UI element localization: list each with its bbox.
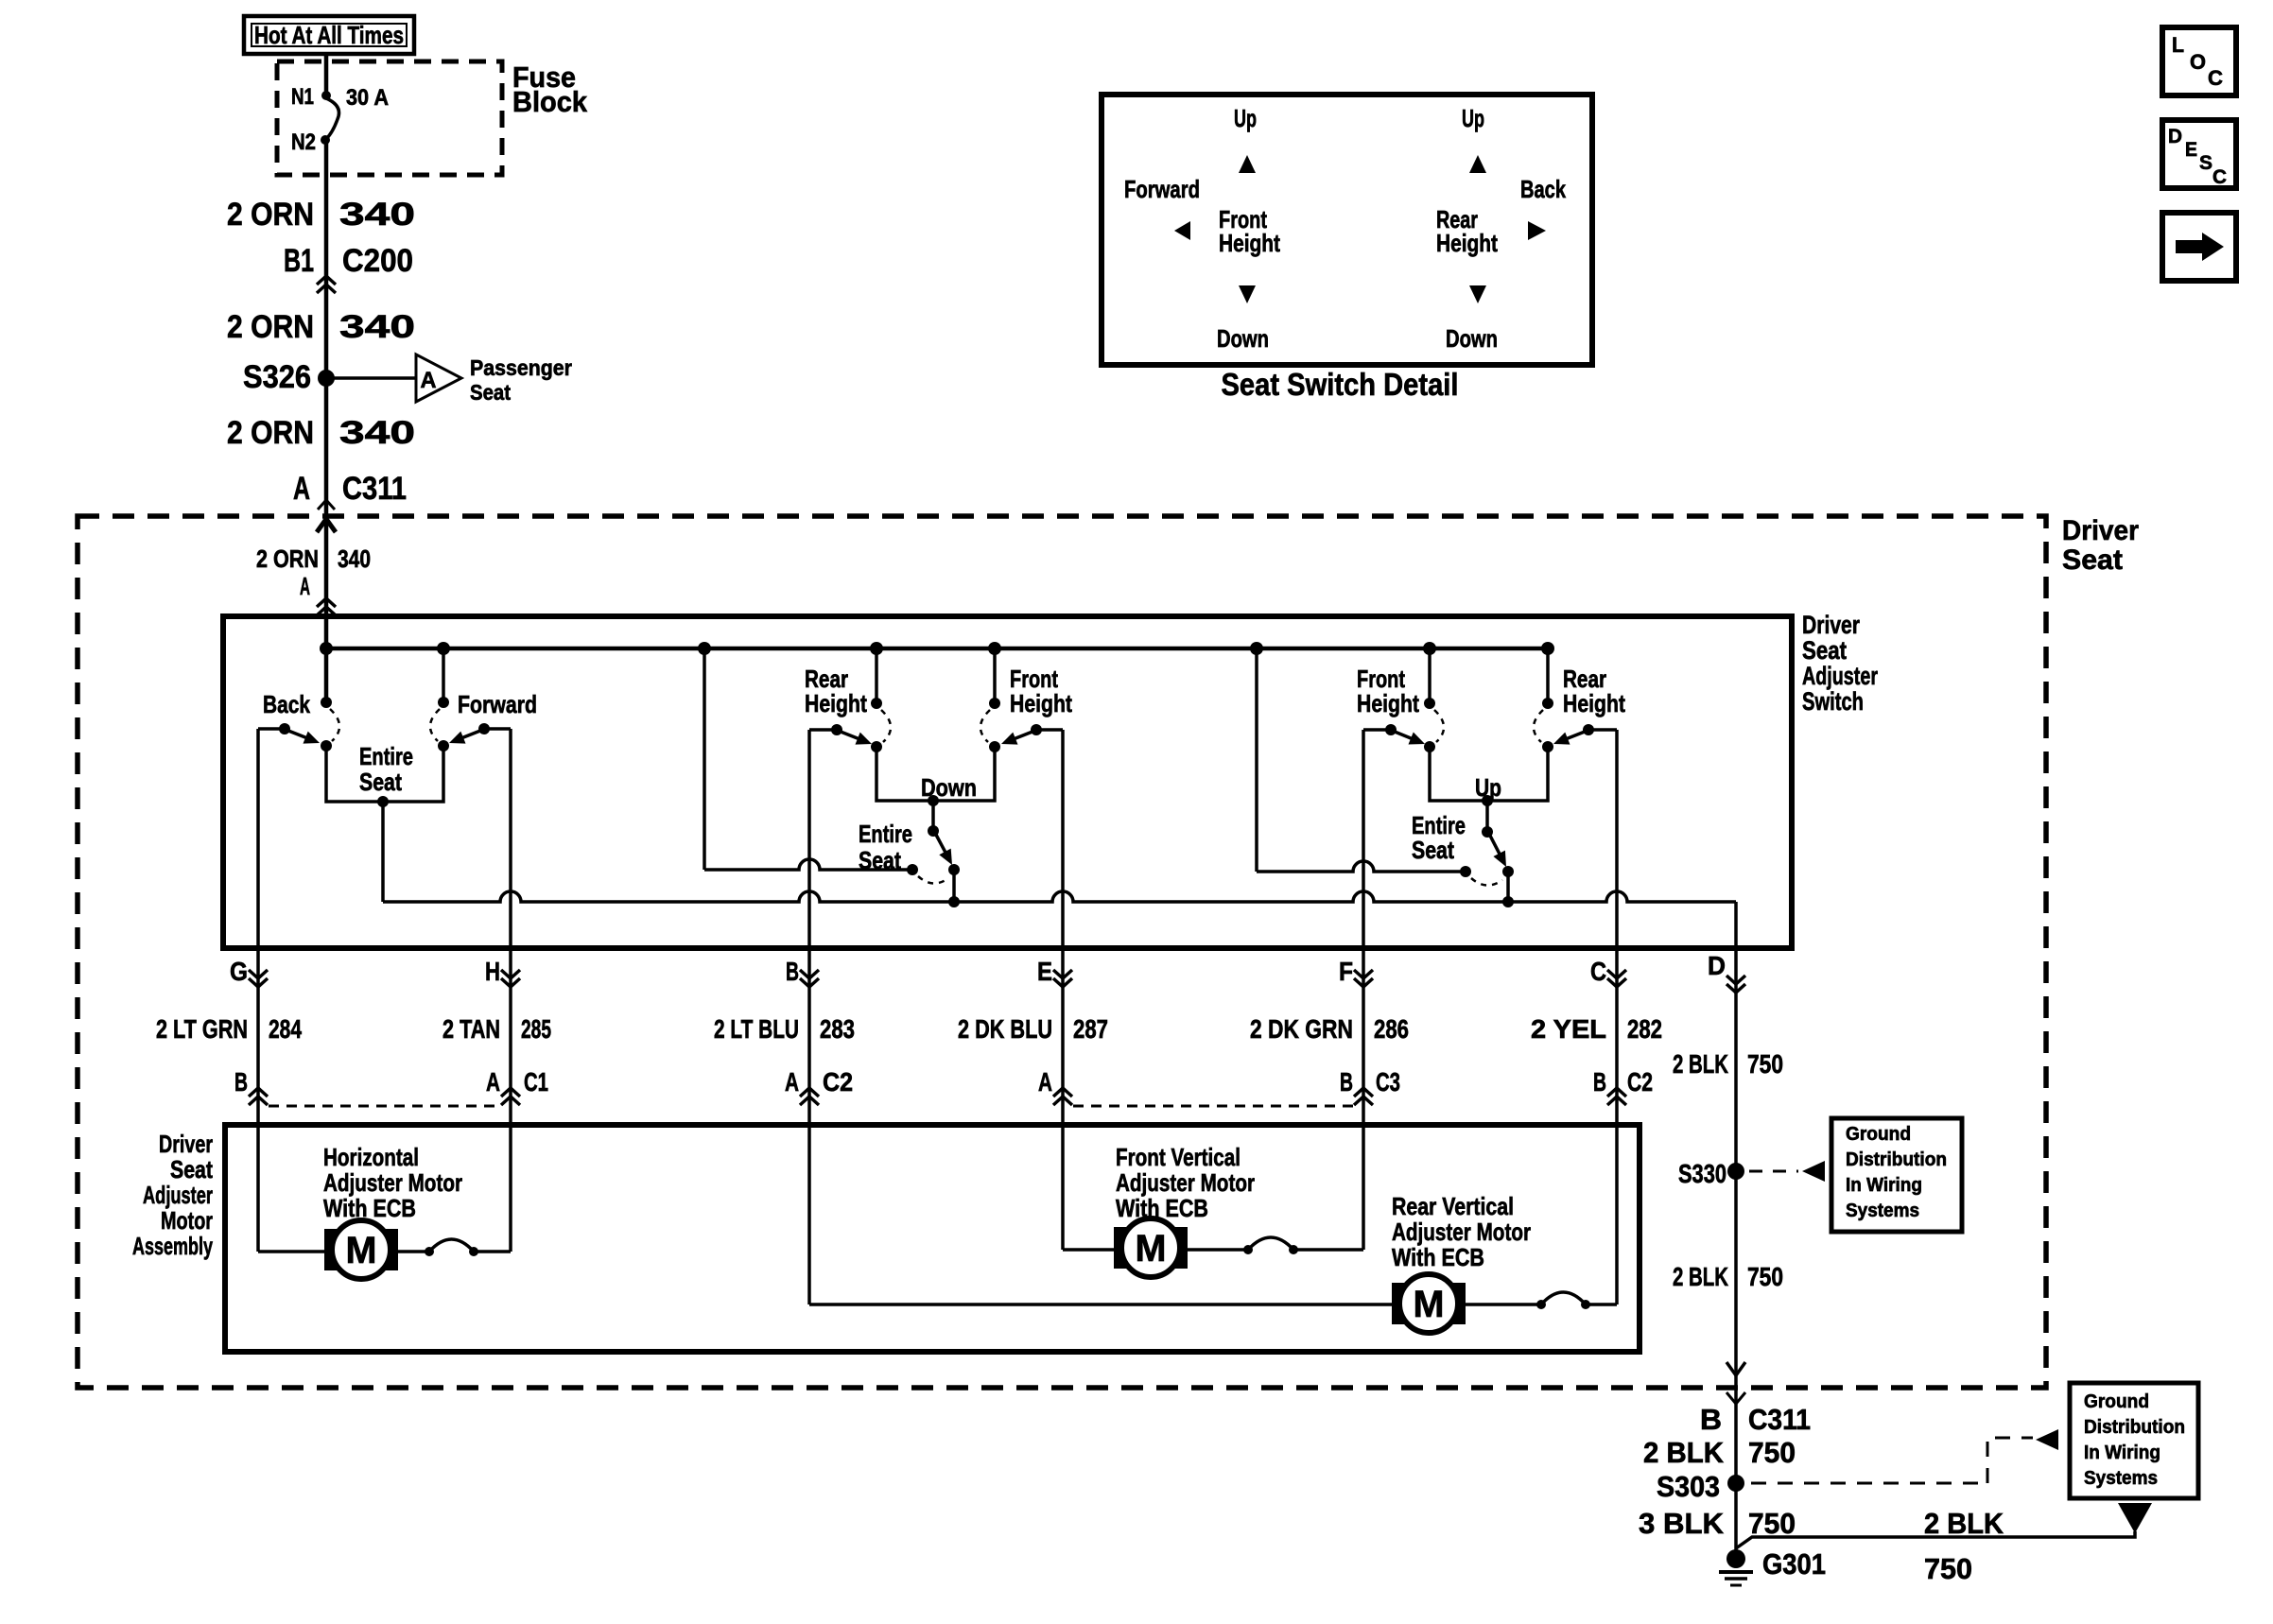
switch arm Forward (461, 731, 480, 738)
svg-text:Seat: Seat (1802, 636, 1847, 665)
wire: S330 down to C311 (1734, 1171, 1738, 1388)
svg-text:B: B (1593, 1067, 1606, 1097)
wire: branch to ground distribution (2 BLK 750) (1736, 1531, 2135, 1548)
dashed reference S330 to ground distribution (1749, 1170, 1798, 1173)
connector symbol G (switch side) (249, 970, 268, 978)
svg-text:Seat: Seat (470, 380, 511, 405)
svg-text:M: M (1414, 1284, 1445, 1325)
svg-text:750: 750 (1748, 1436, 1796, 1469)
wire: M3 to breaker (1462, 1303, 1541, 1306)
svg-text:Seat Switch Detail: Seat Switch Detail (1222, 367, 1459, 402)
fuse 30A element (321, 91, 331, 100)
dashed reference S303 to ground distribution (1751, 1438, 2033, 1483)
connector symbol E (switch side) (1053, 970, 1072, 978)
svg-text:282: 282 (1627, 1014, 1662, 1044)
seat switch detail: front down arrow (1239, 285, 1256, 303)
connector C3 symbol (right half) (1354, 1088, 1373, 1097)
svg-text:B: B (786, 957, 799, 986)
dashed arc Back (330, 709, 339, 741)
entire seat junction (sec1) (377, 796, 389, 807)
entire seat arm pivot (sec3) (1482, 826, 1493, 838)
dashed arc entire seat (sec3) (1471, 878, 1502, 886)
driver seat dashed box (78, 516, 2046, 1388)
svg-text:Hot At All Times: Hot At All Times (254, 21, 404, 49)
svg-text:750: 750 (1748, 1507, 1796, 1540)
svg-text:Adjuster Motor: Adjuster Motor (1116, 1168, 1255, 1197)
wire: sec1 junction down to lower bus (381, 802, 385, 902)
svg-text:3 BLK: 3 BLK (1639, 1507, 1725, 1540)
wire: Hot At All Times to fuse N1 (324, 54, 329, 95)
svg-text:C: C (1590, 957, 1606, 986)
connector C3 symbol (left half) (1053, 1088, 1072, 1097)
dashed arc Rear Height sec3 (1534, 710, 1543, 742)
svg-text:Block: Block (512, 85, 588, 118)
svg-text:287: 287 (1073, 1014, 1108, 1044)
switch arm Rear Height sec3 (1566, 732, 1585, 739)
switch pole (Forward side) (478, 723, 490, 734)
connector symbol B (switch side) (800, 970, 819, 978)
svg-text:340: 340 (339, 415, 415, 451)
svg-text:Adjuster Motor: Adjuster Motor (323, 1168, 462, 1197)
seat switch detail: rear down arrow (1469, 285, 1486, 303)
wire: output C down (1615, 948, 1619, 1125)
connector C1 symbol (right half) (501, 1088, 520, 1097)
svg-text:N2: N2 (291, 130, 316, 155)
wire: bus down to sec3 pole feed (1255, 648, 1258, 872)
svg-text:Ground: Ground (2084, 1391, 2149, 1412)
svg-text:30 A: 30 A (346, 85, 389, 111)
common contact left (sec2) (871, 741, 882, 752)
ground distribution box (upper) (1831, 1118, 1962, 1232)
svg-text:Height: Height (1563, 689, 1625, 717)
svg-text:Forward: Forward (1124, 175, 1200, 203)
up U wire (sec3) (1430, 747, 1548, 801)
DESC icon box (2162, 120, 2236, 188)
switch arm Rear Height (841, 732, 859, 739)
svg-text:E: E (1037, 957, 1052, 986)
svg-text:S326: S326 (243, 359, 311, 395)
switch pole (Front Height sec3) (1385, 724, 1397, 735)
svg-text:Down: Down (1446, 324, 1498, 353)
ground distribution box (lower) (2070, 1383, 2198, 1498)
entire seat contact (sec3) (1460, 866, 1471, 877)
svg-text:Height: Height (1010, 689, 1072, 717)
switch pole (Rear Height) (831, 724, 842, 735)
wire: breaker to C3 wire (1293, 1248, 1363, 1252)
svg-text:Driver: Driver (2062, 515, 2139, 546)
svg-text:Rear Vertical: Rear Vertical (1392, 1192, 1514, 1220)
svg-text:286: 286 (1374, 1014, 1409, 1044)
svg-text:Adjuster Motor: Adjuster Motor (1392, 1218, 1531, 1246)
common contact left (sec1) (321, 740, 332, 752)
switch ground bus with hops (383, 891, 1736, 902)
wire: S326 down to C311 (324, 378, 329, 516)
connector C311 symbol (318, 500, 335, 510)
svg-text:G301: G301 (1762, 1547, 1826, 1581)
wire: breaker to C1 wire (474, 1250, 511, 1253)
svg-text:Height: Height (1219, 229, 1280, 257)
Front Height fixed contact (sec3) (1424, 698, 1435, 709)
up U junction (sec3) (1482, 795, 1493, 806)
entire seat pole (sec2) (948, 864, 960, 875)
wire: pole to B output (809, 728, 837, 732)
wire: bus down to sec2 pole feed (703, 648, 706, 870)
Rear Height fixed contact (sec2) (871, 698, 882, 709)
svg-text:Seat: Seat (859, 846, 901, 874)
wire: up junction to entire-seat arm (sec3) (1485, 801, 1489, 832)
bus junction (front height drop sec2) (988, 642, 1001, 655)
svg-text:Back: Back (263, 690, 310, 718)
connector symbol D (1726, 976, 1745, 984)
svg-text:B: B (1700, 1403, 1722, 1436)
svg-text:S: S (2199, 152, 2212, 174)
svg-text:A: A (421, 368, 437, 393)
svg-text:C: C (2208, 66, 2223, 90)
driver seat adjuster motor assembly box (225, 1125, 1640, 1352)
wire: bus to Front Height contact (sec3) (1428, 648, 1431, 703)
wire: pole to C output (1588, 728, 1617, 732)
svg-text:D: D (1708, 951, 1726, 980)
circuit breaker (M3 ECB) (1536, 1300, 1546, 1309)
seat switch detail: forward arrow (1174, 221, 1190, 240)
svg-text:In Wiring: In Wiring (1846, 1175, 1922, 1196)
common contact right (sec2) (989, 741, 1000, 752)
wire: bus to Rear Height contact (sec3) (1546, 648, 1550, 703)
horizontal adjuster motor M1 (324, 1229, 398, 1270)
svg-text:2 DK BLU: 2 DK BLU (958, 1014, 1052, 1044)
seat switch detail: back arrow (1528, 221, 1546, 240)
svg-text:2 LT GRN: 2 LT GRN (156, 1014, 248, 1044)
svg-text:2 DK GRN: 2 DK GRN (1250, 1014, 1353, 1044)
entire seat contact (sec2) (907, 864, 918, 875)
connector C200 symbol (317, 276, 336, 285)
svg-text:Systems: Systems (2084, 1468, 2158, 1489)
svg-text:B: B (1340, 1067, 1353, 1097)
svg-text:750: 750 (1747, 1262, 1783, 1291)
connector C1 dashed outline (269, 1105, 500, 1108)
wire: sec2 pole to lower bus (952, 870, 956, 902)
svg-text:2 TAN: 2 TAN (442, 1014, 500, 1044)
seat switch detail: rear up arrow (1469, 155, 1486, 173)
svg-text:F: F (1339, 957, 1353, 986)
wire: sec3 pole feed horizontal (1257, 861, 1466, 872)
common contact right (sec3) (1542, 741, 1553, 752)
wire: sec3 pole to lower bus (1506, 872, 1510, 902)
svg-text:Horizontal: Horizontal (323, 1143, 419, 1171)
svg-text:2 ORN: 2 ORN (256, 544, 319, 573)
Forward fixed contact (438, 697, 449, 708)
bus junction (forward drop) (437, 642, 450, 655)
svg-text:285: 285 (521, 1014, 551, 1044)
svg-text:750: 750 (1747, 1049, 1783, 1079)
bus junction (front height drop sec3) (1423, 642, 1436, 655)
wire: sec2 pole feed horizontal (704, 859, 912, 870)
connector symbol at switch box (317, 598, 336, 607)
dashed arc Rear Height (881, 710, 891, 742)
ground bus junction (sec2 pole) (948, 896, 960, 907)
svg-text:C311: C311 (342, 471, 407, 507)
wire: breaker to C2 wire (1586, 1303, 1617, 1306)
driver seat adjuster switch box (223, 616, 1792, 948)
svg-text:Distribution: Distribution (1846, 1149, 1947, 1170)
svg-text:283: 283 (820, 1014, 855, 1044)
dashed arc entire seat (sec2) (918, 876, 948, 884)
wire: C200 to S326 (324, 284, 329, 378)
svg-text:2 BLK: 2 BLK (1673, 1262, 1728, 1291)
LOC icon box (2162, 27, 2236, 95)
wire: E to front vertical motor (1061, 1125, 1065, 1250)
svg-text:A: A (300, 572, 310, 600)
wire: C311 into driver seat to switch (324, 516, 329, 648)
svg-text:Driver: Driver (159, 1130, 213, 1158)
switch arm Back (288, 731, 307, 738)
svg-text:With ECB: With ECB (1392, 1243, 1484, 1271)
svg-text:Up: Up (1234, 104, 1257, 132)
svg-text:C: C (2212, 166, 2227, 188)
svg-text:With ECB: With ECB (323, 1194, 416, 1222)
svg-text:2 LT BLU: 2 LT BLU (714, 1014, 799, 1044)
wire: output B down (807, 948, 811, 1125)
svg-text:2 BLK: 2 BLK (1643, 1436, 1725, 1469)
svg-text:C200: C200 (342, 243, 413, 279)
wire: pole to E output (1036, 728, 1063, 732)
wire: pole to F output (1363, 728, 1391, 732)
svg-text:Passenger: Passenger (470, 355, 572, 380)
svg-text:B1: B1 (284, 243, 314, 279)
svg-text:Seat: Seat (170, 1155, 213, 1183)
switch pole (Rear Height sec3) (1583, 724, 1594, 735)
switch arm Front Height sec3 (1395, 732, 1413, 739)
wire: output G down (256, 948, 260, 1125)
bus junction (sec3 entire-seat drop) (1250, 642, 1263, 655)
arrow icon box (2162, 213, 2236, 281)
svg-text:Height: Height (805, 689, 867, 717)
svg-text:Assembly: Assembly (132, 1232, 213, 1260)
svg-text:Up: Up (1462, 104, 1484, 132)
svg-text:340: 340 (339, 309, 415, 345)
wire: B to rear vertical motor (807, 1125, 811, 1304)
svg-text:M: M (346, 1230, 377, 1271)
wire: S326 branch to passenger seat (326, 376, 416, 380)
common contact right (sec1) (438, 740, 449, 752)
entire seat arm pivot (sec2) (928, 825, 939, 837)
switch feed bus (326, 647, 1548, 651)
Rear Height fixed contact (sec3) (1542, 698, 1553, 709)
dashed arc Forward (430, 709, 440, 741)
wire: bus to Front Height contact (sec2) (993, 648, 997, 703)
connector C2 symbol (C wire) (1607, 1088, 1626, 1097)
svg-text:Entire: Entire (859, 820, 912, 848)
svg-text:Seat: Seat (1412, 836, 1454, 864)
circuit breaker (M1 ECB) (425, 1247, 434, 1256)
svg-text:A: A (1038, 1067, 1052, 1097)
svg-text:Switch: Switch (1802, 687, 1864, 716)
svg-text:C2: C2 (823, 1067, 853, 1097)
connector C311 bottom symbol (1726, 1392, 1745, 1404)
svg-text:Height: Height (1357, 689, 1419, 717)
svg-text:Front Vertical: Front Vertical (1116, 1143, 1241, 1171)
entire seat U wire (sec1) (326, 746, 443, 802)
svg-text:340: 340 (339, 197, 415, 233)
seat switch detail: front up arrow (1239, 155, 1256, 173)
wire: bus to Forward contact (442, 648, 445, 702)
svg-text:D: D (2168, 126, 2182, 147)
entire seat switch arm (sec2) (936, 835, 946, 854)
svg-text:In Wiring: In Wiring (2084, 1443, 2160, 1463)
wire: output E down (1061, 948, 1065, 1125)
fuse block dashed box (277, 61, 502, 175)
wire: bus to Rear Height contact (sec2) (875, 648, 878, 703)
bus junction (rear height drop) (870, 642, 883, 655)
svg-text:Forward: Forward (458, 690, 537, 718)
entire seat switch arm (sec3) (1490, 836, 1501, 855)
svg-text:A: A (486, 1067, 500, 1097)
wire: C311 to S303 (1734, 1388, 1738, 1483)
svg-text:O: O (2190, 50, 2206, 74)
svg-text:Entire: Entire (359, 742, 413, 770)
Front Height fixed contact (sec2) (989, 698, 1000, 709)
ground bus junction (sec3 pole) (1502, 896, 1514, 907)
svg-text:Ground: Ground (1846, 1124, 1911, 1145)
seat switch detail box (1102, 95, 1592, 365)
dashed arc Front Height sec3 (1434, 710, 1444, 742)
ground G301 (1726, 1549, 1745, 1568)
wire: M1 to breaker (394, 1250, 429, 1253)
svg-text:Back: Back (1520, 175, 1566, 203)
svg-text:Height: Height (1436, 229, 1498, 257)
svg-text:2 YEL: 2 YEL (1531, 1014, 1606, 1044)
wire: D output down to S330 (1734, 948, 1738, 1171)
switch pole (Front Height sec2) (1031, 724, 1042, 735)
rear vertical adjuster motor M3 (1392, 1283, 1466, 1324)
wire: output F down (1362, 948, 1365, 1125)
bus junction (sec2 entire-seat drop) (698, 642, 711, 655)
svg-text:C3: C3 (1376, 1067, 1400, 1097)
svg-text:Seat: Seat (359, 768, 402, 796)
connector C3 dashed outline (1073, 1105, 1353, 1108)
svg-text:Adjuster: Adjuster (143, 1181, 213, 1209)
svg-text:Seat: Seat (2062, 544, 2123, 576)
wire: pole to G output (258, 727, 285, 731)
circuit breaker (M2 ECB) (1243, 1245, 1253, 1254)
wire: S303 down to G301 (1734, 1483, 1738, 1552)
wire: ground bus to D output (1734, 902, 1738, 948)
svg-text:C1: C1 (524, 1067, 548, 1097)
connector C1 symbol (left half) (249, 1088, 268, 1097)
power label box: Hot At All Times (244, 16, 414, 54)
entire seat pole (sec3) (1502, 866, 1514, 877)
svg-text:2 ORN: 2 ORN (227, 309, 314, 345)
svg-text:Motor: Motor (161, 1206, 213, 1235)
front vertical adjuster motor M2 (1114, 1227, 1188, 1269)
svg-text:750: 750 (1924, 1552, 1972, 1585)
wire: output H down (509, 948, 512, 1125)
common contact left (sec3) (1424, 741, 1435, 752)
wire: bus to Back contact (324, 648, 329, 702)
svg-text:M: M (1136, 1228, 1167, 1270)
wire: G to horizontal motor (256, 1125, 260, 1252)
svg-text:2 ORN: 2 ORN (227, 197, 314, 233)
Back fixed contact (321, 697, 332, 708)
svg-text:G: G (230, 957, 248, 986)
svg-text:Systems: Systems (1846, 1201, 1919, 1221)
svg-text:S303: S303 (1657, 1470, 1720, 1503)
svg-text:Distribution: Distribution (2084, 1417, 2185, 1438)
switch pole (Back side) (279, 723, 290, 734)
svg-text:Adjuster: Adjuster (1802, 662, 1878, 690)
svg-text:2 ORN: 2 ORN (227, 415, 314, 451)
svg-text:B: B (234, 1067, 248, 1097)
svg-text:A: A (785, 1067, 799, 1097)
down U wire (sec2) (876, 747, 995, 801)
connector C311 arrow (top half) (1726, 1362, 1745, 1375)
dashed arc Front Height sec2 (980, 710, 990, 742)
off-page connector A to passenger seat (416, 354, 461, 402)
wire: pole to H output (484, 727, 511, 731)
svg-text:Driver: Driver (1802, 611, 1860, 639)
svg-text:A: A (293, 471, 310, 507)
wire: M2 to breaker (1184, 1248, 1248, 1252)
svg-text:340: 340 (338, 544, 371, 573)
bus junction (rear height drop sec3) (1541, 642, 1554, 655)
connector symbol H (switch side) (501, 970, 520, 978)
svg-text:Down: Down (1217, 324, 1269, 353)
svg-text:S330: S330 (1678, 1159, 1726, 1188)
svg-text:C2: C2 (1627, 1067, 1653, 1097)
svg-text:L: L (2172, 33, 2184, 57)
switch arm Front Height sec2 (1014, 732, 1032, 739)
connector symbol F (switch side) (1354, 970, 1373, 978)
svg-text:284: 284 (269, 1014, 302, 1044)
wire: fuse N2 down to C200 (324, 140, 329, 284)
svg-text:N1: N1 (291, 84, 314, 110)
svg-text:H: H (485, 957, 500, 986)
wire: down junction to entire-seat arm (sec2) (931, 801, 935, 831)
svg-text:2 BLK: 2 BLK (1924, 1507, 2004, 1540)
svg-text:E: E (2185, 139, 2197, 161)
down U junction (sec2) (928, 795, 939, 806)
bus junction (feed) (320, 642, 333, 655)
connector symbol C (switch side) (1607, 970, 1626, 978)
svg-text:2 BLK: 2 BLK (1673, 1049, 1728, 1079)
svg-text:C311: C311 (1748, 1403, 1811, 1436)
connector C2 symbol (B wire) (800, 1088, 819, 1097)
